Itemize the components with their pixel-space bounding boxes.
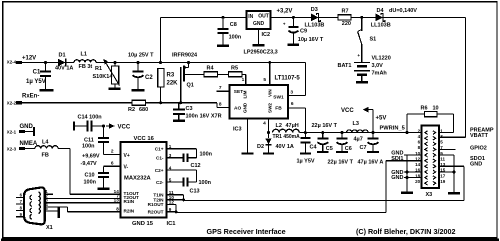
svg-text:17: 17 <box>440 173 446 178</box>
svg-text:OUT: OUT <box>258 14 269 20</box>
svg-text:V+: V+ <box>124 153 130 159</box>
svg-text:VIN: VIN <box>268 89 273 97</box>
svg-text:C12: C12 <box>191 163 201 169</box>
svg-text:7mAh: 7mAh <box>372 71 388 77</box>
svg-text:R3: R3 <box>167 73 175 79</box>
svg-text:+: + <box>283 21 286 26</box>
svg-text:R2IN: R2IN <box>124 208 135 213</box>
svg-text:C7: C7 <box>359 145 366 151</box>
svg-text:LIM: LIM <box>243 90 248 98</box>
svg-text:R5: R5 <box>231 65 238 71</box>
svg-text:X2-1: X2-1 <box>7 130 17 135</box>
svg-text:47µ 16V A: 47µ 16V A <box>358 159 384 165</box>
svg-text:10µ 25V T: 10µ 25V T <box>128 53 154 59</box>
svg-text:GND: GND <box>391 175 403 181</box>
svg-text:100n: 100n <box>229 35 242 41</box>
svg-text:220: 220 <box>342 21 351 27</box>
svg-text:AO: AO <box>234 106 241 112</box>
svg-text:R1IN: R1IN <box>124 199 135 204</box>
svg-text:C13: C13 <box>190 189 200 195</box>
svg-text:LP2950CZ3,3: LP2950CZ3,3 <box>244 49 278 55</box>
svg-text:LL103B: LL103B <box>371 23 391 29</box>
svg-text:Q1: Q1 <box>187 83 194 89</box>
svg-text:8: 8 <box>116 207 119 212</box>
svg-text:GPIO2: GPIO2 <box>470 145 487 151</box>
svg-text:D3: D3 <box>311 7 318 13</box>
svg-text:SW2: SW2 <box>268 103 273 113</box>
svg-text:X3: X3 <box>426 192 433 198</box>
svg-text:R2OUT: R2OUT <box>148 210 164 215</box>
svg-text:(C) Rolf Bleher, DK7IN 3/2002: (C) Rolf Bleher, DK7IN 3/2002 <box>356 227 455 236</box>
svg-text:R1OUT: R1OUT <box>148 202 164 207</box>
svg-text:C2: C2 <box>145 75 153 81</box>
svg-text:11: 11 <box>440 156 445 161</box>
svg-text:VCC: VCC <box>341 108 354 114</box>
svg-text:LT1107-5: LT1107-5 <box>275 76 301 82</box>
svg-text:GND: GND <box>20 124 34 130</box>
svg-text:8: 8 <box>219 101 222 107</box>
svg-text:19: 19 <box>440 179 446 184</box>
svg-text:X1: X1 <box>46 225 53 231</box>
svg-text:X2-2: X2-2 <box>7 101 17 106</box>
svg-text:FB: FB <box>275 106 282 112</box>
svg-text:GND: GND <box>253 21 265 27</box>
svg-text:D1: D1 <box>59 52 66 58</box>
svg-text:L4: L4 <box>42 140 49 146</box>
svg-text:D4: D4 <box>377 8 385 14</box>
svg-text:14: 14 <box>415 162 421 167</box>
svg-text:2: 2 <box>111 149 114 155</box>
svg-text:L2: L2 <box>276 123 282 129</box>
svg-text:dU=0,140V: dU=0,140V <box>389 8 417 14</box>
svg-text:-9,47V: -9,47V <box>81 161 98 167</box>
svg-text:22K: 22K <box>167 81 179 87</box>
svg-text:GPS Receiver Interface: GPS Receiver Interface <box>207 227 286 236</box>
svg-text:FB 3t: FB 3t <box>79 64 93 70</box>
svg-text:6: 6 <box>111 161 114 167</box>
svg-text:22µ 16V T: 22µ 16V T <box>312 123 338 129</box>
svg-text:C1+: C1+ <box>155 147 164 152</box>
svg-text:FB: FB <box>42 152 49 158</box>
svg-text:S1: S1 <box>370 37 377 43</box>
svg-text:47µH: 47µH <box>286 123 299 129</box>
svg-text:GND 15: GND 15 <box>132 221 154 227</box>
svg-text:C6: C6 <box>345 146 352 152</box>
svg-text:C11: C11 <box>84 137 94 143</box>
svg-text:5: 5 <box>263 77 266 83</box>
svg-text:4µ7: 4µ7 <box>354 137 363 143</box>
svg-text:TR1 450mA: TR1 450mA <box>273 134 301 140</box>
svg-text:100n 16V X7R: 100n 16V X7R <box>186 114 222 120</box>
svg-text:+: + <box>357 53 360 58</box>
svg-text:IN: IN <box>248 14 253 20</box>
svg-text:C10: C10 <box>85 172 95 178</box>
svg-text:100n: 100n <box>84 180 97 186</box>
svg-text:20: 20 <box>415 179 421 184</box>
svg-text:3,0V: 3,0V <box>372 63 384 69</box>
svg-text:C2+: C2+ <box>155 168 164 173</box>
svg-text:L3: L3 <box>353 121 359 127</box>
svg-text:IC2: IC2 <box>262 32 271 38</box>
svg-text:C1: C1 <box>33 70 41 76</box>
svg-text:1µ Y5V: 1µ Y5V <box>26 79 46 85</box>
svg-text:BAT1: BAT1 <box>338 63 352 69</box>
svg-text:C8: C8 <box>230 22 237 28</box>
svg-text:C9: C9 <box>300 28 307 34</box>
svg-text:C1-: C1- <box>156 156 164 161</box>
svg-text:4: 4 <box>263 121 266 127</box>
svg-text:R4: R4 <box>207 65 215 71</box>
svg-text:S10K14: S10K14 <box>93 74 114 80</box>
svg-text:C14 100n: C14 100n <box>78 114 103 120</box>
svg-text:GND: GND <box>243 102 248 113</box>
svg-text:1: 1 <box>242 77 245 83</box>
svg-text:C3: C3 <box>186 106 193 112</box>
svg-text:100n: 100n <box>82 144 95 150</box>
svg-text:+12V: +12V <box>22 55 36 61</box>
svg-text:X2-4: X2-4 <box>7 60 17 65</box>
svg-text:10µ 16V T: 10µ 16V T <box>298 37 324 43</box>
svg-text:VCC: VCC <box>118 124 131 130</box>
svg-text:NMEA: NMEA <box>20 141 38 147</box>
svg-text:40V 1A: 40V 1A <box>55 65 73 71</box>
svg-text:SW1: SW1 <box>273 95 284 101</box>
svg-text:R2: R2 <box>128 107 135 113</box>
svg-text:100n: 100n <box>200 151 213 157</box>
svg-text:LL103B: LL103B <box>305 23 325 29</box>
svg-text:IC3: IC3 <box>233 127 242 133</box>
svg-text:RxEn-: RxEn- <box>22 94 39 100</box>
svg-text:6: 6 <box>291 101 294 107</box>
svg-text:680: 680 <box>139 107 148 113</box>
svg-text:L1: L1 <box>81 51 87 57</box>
svg-text:3: 3 <box>290 90 293 96</box>
svg-text:V-: V- <box>124 165 129 171</box>
svg-text:C2-: C2- <box>156 180 164 185</box>
svg-text:R1: R1 <box>95 66 102 72</box>
svg-text:VBATT: VBATT <box>470 133 489 139</box>
svg-text:10: 10 <box>433 105 439 111</box>
svg-text:VL1220: VL1220 <box>372 56 391 62</box>
svg-text:22µ 16V T: 22µ 16V T <box>328 159 354 165</box>
svg-text:+3,2V: +3,2V <box>277 9 293 15</box>
svg-text:1µ Y5V: 1µ Y5V <box>297 158 315 164</box>
svg-text:C4: C4 <box>310 145 318 151</box>
svg-text:C5: C5 <box>326 146 333 152</box>
svg-text:R6: R6 <box>421 105 428 111</box>
svg-text:7: 7 <box>219 85 222 91</box>
svg-text:VCC 16: VCC 16 <box>134 136 155 142</box>
svg-text:100n: 100n <box>199 180 212 186</box>
svg-text:40V 1A: 40V 1A <box>276 144 294 150</box>
svg-text:+5V: +5V <box>376 115 387 121</box>
svg-text:X2-3: X2-3 <box>7 147 17 152</box>
svg-text:R7: R7 <box>342 8 349 14</box>
svg-text:GND: GND <box>470 162 482 168</box>
svg-text:D2: D2 <box>257 144 264 150</box>
svg-text:+9,69V: +9,69V <box>82 154 100 160</box>
svg-text:PWRIN_5: PWRIN_5 <box>380 125 405 131</box>
svg-text:IRFR9024: IRFR9024 <box>172 53 198 59</box>
svg-text:IC1: IC1 <box>167 221 177 227</box>
svg-text:MAX232A: MAX232A <box>124 176 152 182</box>
